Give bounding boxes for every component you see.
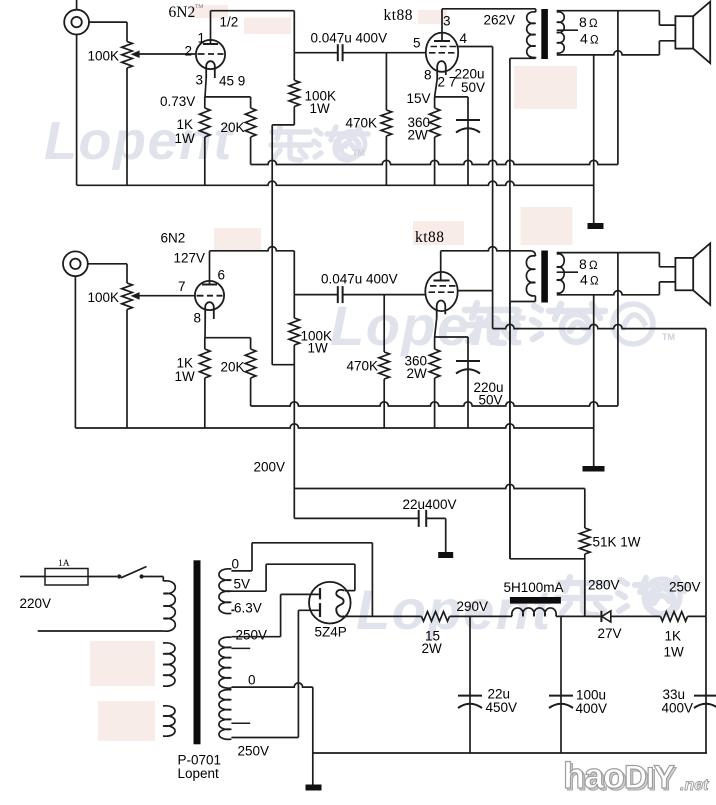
diode 27V (602, 611, 611, 622)
svg-text:TM: TM (352, 148, 365, 158)
svg-text:450V: 450V (486, 700, 518, 715)
wire 280V node to OPT primaries drop (510, 558, 585, 560)
mains lead neutral (38, 630, 164, 632)
node B branch to coupling cap 2 (294, 294, 337, 296)
svg-text:6N2: 6N2 (161, 231, 186, 246)
svg-text:50V: 50V (479, 393, 503, 408)
feedback wire channel 1 (to 8-ohm tap) (251, 160, 618, 164)
wire secondary 2 top 8-ohm tap (557, 252, 660, 254)
wire jack2 tip to volume pot 2 (88, 263, 127, 265)
output transformer T2 core (541, 251, 548, 303)
wire secondary top 8-ohm tap (557, 10, 660, 12)
output transformer T1 primary (527, 12, 536, 58)
svg-text:Ω: Ω (590, 35, 599, 47)
svg-text:20K: 20K (221, 120, 245, 135)
capacitor 22u 450V reservoir (469, 616, 471, 753)
wire to speaker 2 plus (658, 253, 660, 267)
potentiometer 100K (channel 1) (122, 42, 133, 69)
svg-text:400V: 400V (662, 701, 694, 716)
resistor 1K 1W cathode (channel 1) (204, 97, 206, 108)
resistor 20K feedback (channel 1) (250, 97, 252, 108)
pentode V1 KT88 (channel 1) (426, 33, 458, 72)
svg-text:5Z4P: 5Z4P (315, 625, 347, 640)
capacitor 22u 400V decoupling (418, 510, 420, 527)
svg-text:8: 8 (579, 256, 587, 272)
resistor 470K grid leak (channel 1) (385, 53, 387, 110)
wire decoupling cap to ground (426, 517, 445, 519)
tap 0 of heater winding to B+ takeoff (231, 570, 252, 572)
svg-text:1K: 1K (177, 117, 194, 132)
power transformer primary winding (162, 577, 164, 582)
tap 6.3V stub (231, 609, 234, 611)
svg-text:2 7: 2 7 (438, 75, 457, 90)
input jack J1 (64, 10, 89, 35)
wire KT88-2 cathode junction (435, 336, 468, 338)
output transformer T2 secondary (557, 254, 565, 293)
svg-text:1/2: 1/2 (220, 15, 239, 30)
svg-text:51K 1W: 51K 1W (593, 535, 641, 550)
wire 290V node (450, 615, 513, 617)
wire 1K to 250V node (688, 615, 707, 617)
svg-text:8: 8 (194, 311, 202, 326)
wire secondary 2 bottom to ground (593, 295, 595, 466)
svg-text:3: 3 (443, 14, 451, 29)
wire KT88-2 screen to screens supply line (458, 290, 493, 292)
svg-text:.net: .net (680, 777, 709, 794)
speaker LS2 (675, 258, 693, 290)
svg-text:250V: 250V (669, 580, 701, 595)
screens supply line to 250V (493, 324, 706, 328)
svg-text:1: 1 (198, 31, 206, 46)
resistor 1K 1W screens feed (661, 612, 688, 622)
wire centre tap to ground return (231, 683, 312, 687)
svg-text:2W: 2W (407, 366, 428, 381)
ground symbol PSU (312, 753, 314, 785)
capacitor 33u 400V screens filter (705, 616, 707, 753)
svg-text:haoDIY: haoDIY (563, 755, 674, 796)
wire 250V upper tap to rectifier plate 1 (231, 636, 280, 638)
svg-text:kt88: kt88 (415, 229, 445, 246)
svg-text:TM: TM (662, 332, 675, 342)
svg-text:470K: 470K (346, 116, 378, 131)
ground symbol channel 2 (583, 466, 605, 472)
svg-text:5: 5 (413, 36, 421, 51)
svg-text:6N2: 6N2 (169, 4, 196, 21)
censor box under output transformer 1 (514, 66, 577, 109)
wire jack2 sleeve to ground bus 2 (74, 276, 76, 428)
svg-text:5V: 5V (234, 577, 251, 592)
wire to speaker 2 minus (658, 282, 660, 295)
resistor 360 2W cathode (channel 2) (434, 337, 436, 349)
wire 6N2 cathode down (205, 78, 206, 97)
svg-text:2W: 2W (408, 128, 429, 143)
svg-text:280V: 280V (588, 578, 620, 593)
wire secondary 2 bottom (557, 291, 660, 295)
wire pot2 wiper to 6N2 grid (channel 2) (139, 295, 195, 297)
svg-text:5H100mA: 5H100mA (504, 580, 564, 595)
wire to speaker 1 plus (658, 11, 660, 25)
wire pot1 bottom to ground bus (126, 68, 128, 185)
wire 8-ohm tap 2 down to feedback line 2 (617, 253, 619, 406)
wire B+ drop for OPT primaries (509, 302, 511, 559)
svg-text:262V: 262V (484, 13, 516, 28)
svg-text:22u400V: 22u400V (403, 497, 457, 512)
svg-text:250V: 250V (236, 628, 268, 643)
wire KT88-1 cathode junction (435, 96, 468, 98)
wire KT88-1 plate to output transformer (441, 9, 443, 41)
wire diode to 1K (611, 615, 661, 617)
svg-text:100K: 100K (88, 49, 120, 64)
wire 4-ohm tap stub (557, 29, 578, 31)
wire to speaker 1 minus (658, 41, 660, 55)
wire fuse to switch (88, 576, 117, 578)
svg-text:50V: 50V (461, 80, 485, 95)
fuse 1A (45, 569, 88, 586)
HT winding lower 250V (219, 690, 231, 740)
node A branch to coupling cap (294, 52, 337, 54)
ground bus channel 1 (77, 181, 594, 185)
input jack J2 (63, 251, 88, 276)
PSU ground return line (313, 752, 707, 754)
power switch S1 (117, 574, 121, 578)
capacitor 0.047u 400V (channel 1) (337, 44, 339, 61)
wire pot2 bottom to ground bus 2 (126, 310, 128, 429)
censor box near 6N2 label (top) (190, 5, 228, 18)
wire plate load 2 bottom down to 200V node (293, 345, 295, 489)
svg-text:2W: 2W (422, 641, 443, 656)
svg-text:Ω: Ω (590, 276, 599, 288)
svg-text:8: 8 (579, 14, 587, 30)
rectifier tube 5Z4P (309, 582, 351, 624)
wire jack1 tip to volume pot (89, 21, 127, 23)
output transformer T1 secondary (557, 12, 565, 53)
svg-text:4: 4 (580, 272, 588, 288)
rectifier heater winding 0-5V-6.3V (219, 569, 231, 614)
wire cap1 to KT88 grid (343, 52, 426, 54)
power transformer core (194, 560, 201, 744)
B+ line from rectifier cathode (345, 615, 422, 617)
wire OPT1 primary bottom to B+ (280V) (510, 57, 536, 59)
triode U1a 6N2 (channel 1) (196, 40, 225, 69)
resistor 51K 1W dropping (584, 489, 586, 529)
wire pot1 wiper to 6N2 grid (139, 53, 196, 55)
svg-text:1W: 1W (664, 645, 685, 660)
capacitor 220u 50V cathode bypass (channel 2) (467, 337, 469, 428)
svg-text:15V: 15V (407, 91, 431, 106)
ground bus channel 2 (75, 424, 593, 428)
svg-text:100K: 100K (88, 290, 120, 305)
auxiliary winding A (censored) (163, 643, 175, 686)
wire 6N2 plate up and right to node A (210, 11, 212, 44)
resistor 1K 1W cathode (channel 2) (204, 338, 206, 349)
svg-text:1W: 1W (175, 131, 196, 146)
200V rail wire to 51K (294, 484, 585, 488)
censor box near kt88 label (channel 2) (413, 221, 464, 245)
svg-text:1W: 1W (308, 341, 329, 356)
svg-text:0.047u 400V: 0.047u 400V (311, 31, 388, 46)
censor box near 6N2 label (channel 2) (214, 228, 261, 250)
svg-text:3: 3 (196, 73, 204, 88)
svg-text:1W: 1W (310, 101, 331, 116)
svg-text:200V: 200V (254, 460, 286, 475)
wire choke to 280V node (556, 615, 602, 617)
wire 250V lower tap to rectifier plate 2 (231, 737, 298, 739)
svg-text:27V: 27V (598, 626, 622, 641)
wire KT88-2 plate to output transformer 2 (440, 251, 442, 281)
wire jack1 sleeve to ground bus (76, 35, 78, 186)
feedback wire channel 2 (to 8-ohm tap 2) (251, 402, 618, 406)
resistor 100K 1W plate load (channel 2) (293, 295, 295, 318)
svg-text:1A: 1A (58, 559, 70, 569)
svg-text:Lopent: Lopent (178, 766, 220, 781)
wire cap2 to KT88-2 grid (343, 294, 426, 296)
svg-text:250V: 250V (238, 744, 270, 759)
HT winding upper 250V (219, 637, 231, 688)
svg-text:4: 4 (460, 31, 468, 46)
svg-text:Ω: Ω (589, 18, 598, 30)
wire KT88-1 cathode down (435, 79, 438, 97)
svg-text:6: 6 (218, 268, 226, 283)
svg-text:6.3V: 6.3V (234, 601, 262, 616)
svg-text:127V: 127V (174, 251, 206, 266)
svg-text:4: 4 (580, 31, 588, 47)
mains lead live (20, 576, 45, 578)
resistor 360 2W cathode (channel 1) (434, 97, 436, 108)
wire secondary bottom to ground (channel 1) (593, 55, 595, 223)
svg-text:0.047u 400V: 0.047u 400V (321, 272, 398, 287)
output transformer T2 primary (526, 256, 535, 296)
wire 4-ohm tap stub 2 (557, 271, 578, 273)
ground symbol decoupling cap (438, 552, 453, 558)
svg-text:Ω: Ω (589, 260, 598, 272)
svg-text:2: 2 (185, 44, 193, 59)
wire plate load 1 bottom to 200V rail drop (272, 124, 294, 126)
output transformer T1 core (541, 9, 548, 59)
wire cathode junction (channel 1) (205, 96, 251, 98)
svg-text:1W: 1W (175, 369, 196, 384)
triode U1b 6N2 (channel 2) (195, 281, 224, 310)
resistor 15 2W (422, 612, 450, 622)
wire 6N2-2 cathode down (204, 319, 206, 338)
svg-text:45 9: 45 9 (219, 74, 245, 89)
resistor 100K 1W plate load (channel 1) (289, 80, 300, 106)
svg-text:7: 7 (178, 279, 186, 294)
junction of both plate loads (272, 364, 294, 366)
wire cathode junction (channel 2) (205, 337, 251, 339)
svg-text:0: 0 (248, 673, 256, 688)
speaker LS1 (675, 16, 693, 48)
svg-text:20K: 20K (221, 360, 245, 375)
censor box over heater winding B (98, 701, 155, 741)
svg-text:kt88: kt88 (384, 7, 414, 24)
wire secondary bottom (channel 1) (557, 51, 660, 55)
pentode V2 KT88 (channel 2) (425, 272, 457, 311)
svg-text:290V: 290V (457, 599, 489, 614)
wire switch to transformer primary (144, 576, 164, 578)
auxiliary winding B (censored) (163, 706, 175, 736)
potentiometer 100K (channel 2) (122, 283, 133, 310)
svg-text:400V: 400V (576, 701, 608, 716)
resistor 470K grid leak (channel 2) (383, 295, 385, 352)
resistor 20K feedback (channel 2) (250, 338, 252, 349)
svg-text:1K: 1K (665, 629, 682, 644)
censor box near kt88 label (top) (418, 10, 447, 24)
svg-text:8: 8 (424, 68, 432, 83)
svg-text:470K: 470K (347, 359, 379, 374)
choke 5H 100mA (510, 597, 561, 604)
wire 6N2-2 plate up and right to node B (209, 251, 211, 285)
svg-text:™: ™ (194, 3, 204, 14)
censor box over heater winding A (90, 641, 155, 686)
wire OPT2 primary bottom to B+ (280V) (534, 296, 536, 302)
capacitor 220u 50V cathode bypass (channel 1) (467, 97, 469, 185)
capacitor 0.047u 400V (channel 2) (337, 286, 339, 303)
capacitor 100u 400V filter (560, 616, 562, 753)
tap 5V to rectifier heater (231, 590, 266, 592)
ground symbol channel 1 (588, 223, 604, 229)
wire 8-ohm tap down to feedback line (617, 11, 619, 165)
wire 200V rail to decoupling cap (294, 517, 418, 519)
wire KT88-2 cathode down (435, 318, 437, 337)
svg-text:0: 0 (232, 557, 240, 572)
svg-text:0.73V: 0.73V (160, 94, 195, 109)
wire KT88-1 screen grid down (to 250V line) (458, 46, 492, 48)
svg-text:220V: 220V (20, 596, 52, 611)
